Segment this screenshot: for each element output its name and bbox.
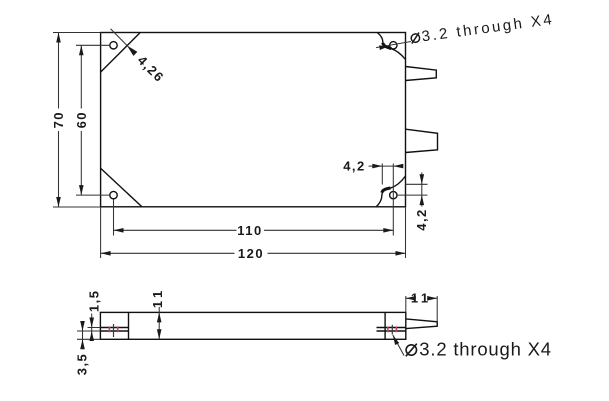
extension line bottom-left hole (76, 194, 110, 196)
hole top-left (110, 42, 117, 49)
side view right internal vertical (384, 312, 386, 339)
extension line bottom-left hole down (113, 200, 115, 236)
dimension 4,2 vertical arrows (420, 174, 425, 184)
dimension 11 vertical arrows (157, 312, 162, 322)
dimension 11 horizontal line (406, 297, 413, 299)
svg-text:3.2 through X4: 3.2 through X4 (419, 339, 552, 360)
svg-text:1,5: 1,5 (86, 290, 101, 313)
top-right corner relief thick stroke (383, 43, 392, 49)
dimension 60 line (80, 45, 82, 108)
svg-text:120: 120 (238, 246, 264, 261)
extension line bottom-right hole right (397, 194, 427, 196)
extension line groove B left (77, 330, 100, 332)
side view left hidden hole red ticks (108, 326, 110, 332)
dimension 4,2 vertical line (421, 173, 423, 207)
dimension 70 line (58, 33, 60, 109)
bottom-left chamfer (101, 168, 142, 207)
dimension 3,5 arrows (80, 321, 85, 331)
chamfer leader line (111, 29, 129, 47)
side view right groove line B (377, 330, 406, 332)
svg-text:11: 11 (150, 287, 165, 308)
extension line top edge left (53, 32, 101, 34)
side view left groove line B (100, 330, 128, 332)
bottom hole leader line (393, 335, 404, 356)
dimension 1,5 line (91, 314, 93, 339)
extension line relief corner vertical (381, 164, 383, 185)
lower tab (406, 129, 438, 152)
top-left chamfer (101, 33, 141, 73)
extension line bottom edge left (53, 206, 101, 208)
side view right hidden hole red ticks (387, 326, 389, 332)
bottom annotation diameter symbol and text (406, 339, 552, 360)
dimension 120 arrows (101, 251, 111, 256)
dimension 11 horizontal arrows (406, 296, 416, 301)
dimension 4,2 horizontal arrows (372, 164, 382, 169)
dimension 110 line (114, 229, 237, 231)
bottom hole leader arrow (393, 335, 399, 345)
dimension 11 vertical line (158, 307, 160, 340)
extension line tab end up (436, 296, 438, 322)
extension line left edge down (100, 207, 102, 258)
chamfer leader arrow (127, 45, 137, 56)
top view plate outline (101, 33, 406, 207)
svg-text:60: 60 (74, 111, 89, 128)
extension line right edge down (405, 207, 407, 258)
extension line groove A left (88, 327, 101, 329)
side view tab wedge (406, 319, 437, 329)
hole bottom-left (110, 191, 117, 198)
dimension 1,5 arrows (89, 318, 94, 328)
svg-text:70: 70 (51, 111, 66, 128)
top hole leader arrow (379, 46, 389, 51)
dimension 110 arrows (114, 228, 124, 233)
side view outline (100, 312, 405, 339)
extension line relief corner horizontal (406, 183, 428, 185)
extension line top-left hole (76, 44, 110, 46)
dimension 3,5 line (82, 322, 84, 348)
svg-text:11: 11 (411, 290, 432, 305)
top annotation diameter symbol and text (410, 11, 555, 47)
svg-text:3,5: 3,5 (74, 353, 89, 376)
top hole leader line (376, 42, 411, 48)
side view left hole centerline (113, 324, 115, 337)
svg-text:4,2: 4,2 (414, 208, 429, 231)
top-right corner relief (377, 33, 405, 60)
dimension 4,2 horizontal line (369, 165, 401, 167)
side view right groove line A (377, 327, 406, 329)
bottom-right corner relief (376, 176, 405, 207)
side view left internal vertical (128, 312, 130, 339)
svg-text:4,2: 4,2 (343, 158, 366, 173)
svg-text:110: 110 (237, 223, 262, 238)
extension line bottom edge left side view (77, 338, 100, 340)
dimension 120 line (101, 252, 235, 254)
side view left groove line A (100, 327, 128, 329)
hole bottom-right (390, 191, 397, 198)
bottom-right corner relief thick stroke (382, 188, 391, 193)
hole top-right (390, 42, 397, 49)
upper tab (406, 67, 437, 81)
extension line bottom-right hole down (392, 164, 394, 236)
side view right hole centerline (391, 325, 393, 335)
extension line side right edge up (405, 296, 407, 312)
dimension 60 arrows (79, 45, 84, 55)
dimension 70 arrows (56, 33, 61, 43)
